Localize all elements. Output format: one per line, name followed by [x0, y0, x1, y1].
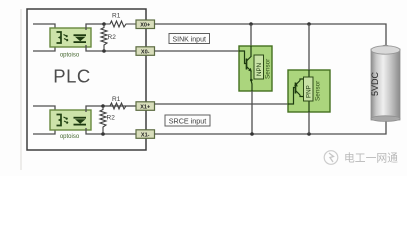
wire: NPN sensor output down to bottom rail — [251, 91, 253, 134]
optocoupler U1 (optoiso) — [50, 28, 91, 47]
svg-text:PLC: PLC — [53, 66, 91, 87]
svg-text:NPN: NPN — [256, 63, 263, 76]
resistor R1 (channel 1) — [104, 13, 136, 28]
node: rail to NPN sensor junction — [249, 22, 253, 26]
terminal COM (channel 1 bottom) — [136, 47, 155, 56]
PLC enclosure box — [21, 9, 146, 170]
svg-text:R2: R2 — [107, 115, 116, 122]
wire: X1 terminal to PNP sensor left pin — [155, 103, 289, 105]
NPN sensor S1 — [239, 46, 272, 91]
wire: channel2 top-left stub — [33, 106, 55, 112]
terminal X0 (channel 1 top) — [136, 20, 155, 29]
PNP sensor S2 — [288, 70, 330, 112]
wire: rail drop into NPN sensor — [250, 24, 252, 46]
resistor R2 (channel 2) — [100, 106, 115, 134]
svg-text:SRCE input: SRCE input — [169, 117, 207, 126]
wire: rail drop into PNP sensor — [308, 24, 310, 70]
resistor R2 (channel 1) — [101, 24, 116, 51]
svg-text:PNP: PNP — [306, 85, 313, 98]
wire: channel2 bottom-left stub — [33, 129, 55, 135]
svg-text:Sensor: Sensor — [265, 58, 272, 79]
optoiso U1 value label — [60, 53, 80, 59]
svg-text:SINK input: SINK input — [172, 36, 206, 43]
wire: COM terminal to NPN sensor left pin — [155, 50, 240, 52]
wire: channel1 bottom-left stub — [33, 46, 55, 52]
watermark text — [344, 152, 398, 165]
watermark logo icon — [324, 151, 338, 165]
optoiso U2 value label — [60, 134, 80, 140]
wire: U2 right pins — [86, 106, 136, 134]
svg-text:X1+: X1+ — [140, 104, 150, 110]
resistor R1 (channel 2) — [103, 96, 136, 109]
wire: U1 right pins to node A — [86, 24, 136, 51]
terminal COM (channel 2 bottom) — [136, 130, 155, 139]
node A junction dot — [102, 22, 106, 26]
wire: bottom rail to battery - — [155, 120, 387, 134]
PLC label — [53, 66, 91, 87]
wire: PNP sensor output down to bottom rail — [308, 112, 310, 134]
svg-text:R1: R1 — [112, 96, 121, 103]
svg-text:X0-: X0- — [141, 49, 150, 55]
svg-text:X1-: X1- — [141, 132, 150, 138]
battery BT1 5VDC — [370, 45, 400, 121]
svg-text:R1: R1 — [112, 13, 121, 20]
optocoupler U2 (optoiso) — [50, 110, 91, 130]
node D junction dot — [101, 132, 105, 136]
svg-text:X0+: X0+ — [140, 23, 150, 29]
terminal X1 (channel 2 top) — [136, 102, 155, 111]
node: PNP output to bottom rail junction — [307, 132, 311, 136]
wire: top supply rail to battery + — [155, 24, 387, 45]
node: NPN output to bottom rail junction — [250, 132, 254, 136]
SINK input label box — [169, 34, 210, 44]
SRCE input label box — [165, 115, 210, 126]
node: rail to PNP sensor junction — [307, 22, 311, 26]
node C junction dot — [101, 104, 105, 108]
wire: channel1 top-left stub — [33, 24, 55, 30]
svg-text:optoiso: optoiso — [60, 53, 80, 59]
svg-text:5VDC: 5VDC — [370, 72, 380, 97]
svg-text:Sensor: Sensor — [315, 80, 322, 101]
svg-text:optoiso: optoiso — [60, 134, 80, 140]
svg-text:R2: R2 — [108, 34, 117, 41]
svg-text:电工一网通: 电工一网通 — [344, 152, 398, 165]
node B junction dot — [102, 49, 106, 53]
